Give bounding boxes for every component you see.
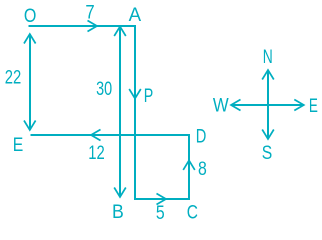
svg-text:B: B: [112, 202, 124, 223]
svg-text:C: C: [187, 202, 198, 223]
svg-text:W: W: [213, 95, 229, 116]
svg-text:7: 7: [85, 3, 94, 24]
svg-text:8: 8: [198, 159, 207, 180]
svg-text:S: S: [262, 143, 273, 164]
svg-text:E: E: [309, 96, 318, 117]
svg-text:5: 5: [156, 203, 165, 223]
svg-text:D: D: [196, 126, 207, 147]
svg-text:E: E: [13, 135, 24, 156]
svg-text:12: 12: [88, 143, 105, 164]
svg-text:22: 22: [5, 67, 22, 88]
svg-text:O: O: [24, 6, 37, 27]
svg-text:A: A: [129, 5, 142, 26]
svg-text:30: 30: [96, 79, 112, 100]
svg-text:P: P: [144, 86, 154, 107]
svg-text:N: N: [263, 47, 273, 68]
